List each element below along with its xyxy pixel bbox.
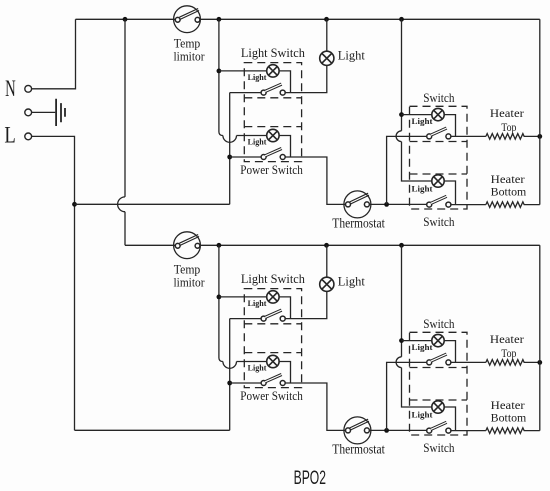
- switch S8 blade: [431, 422, 447, 429]
- wire lamp right to row 2: [279, 297, 290, 319]
- wire ground: [32, 111, 56, 113]
- wire N drop to bottom section with hop over L-feed: [124, 19, 126, 197]
- temp limitor U2 blade: [180, 236, 199, 245]
- svg-text:Light: Light: [338, 273, 365, 288]
- svg-text:Heater: Heater: [491, 174, 525, 186]
- temp limitor U1 body: [174, 6, 201, 33]
- wire switch out to heater bottom 2: [451, 430, 486, 432]
- switch S4 blade: [431, 196, 447, 203]
- wire light switch output to oven lamp: [285, 65, 327, 92]
- junction dot thermostat 2 out: [384, 428, 389, 433]
- junction dot B2 power row: [227, 381, 232, 386]
- resistor heater bottom: [486, 202, 540, 208]
- svg-text:Light Switch: Light Switch: [241, 45, 305, 60]
- lamp oven light top: [326, 19, 328, 51]
- svg-text:Bottom: Bottom: [491, 187, 527, 199]
- switch S2 terminal right: [280, 155, 285, 160]
- junction dot heater top right rail: [537, 134, 542, 139]
- junction dot L-feed top: [72, 202, 77, 207]
- wire lamp right to row: [279, 71, 290, 93]
- switch S6 terminal left: [261, 381, 266, 386]
- svg-text:Power Switch: Power Switch: [240, 388, 303, 403]
- wire A2 branch to light-switch lamp: [219, 296, 267, 298]
- svg-text:Switch: Switch: [423, 90, 455, 105]
- wire A2 to power lamp: [237, 361, 267, 363]
- svg-text:Power Switch: Power Switch: [240, 162, 303, 177]
- svg-text:Light: Light: [412, 116, 433, 126]
- temp limitor blade: [180, 10, 199, 19]
- light/power switch dashed enclosure: [244, 63, 301, 162]
- thermostat 2 terminal left: [346, 428, 351, 433]
- lamp heater-bottom 2 indicator: [432, 401, 444, 413]
- bottom rail left segment: [125, 244, 175, 246]
- dashed divider under light switch 2: [244, 323, 301, 325]
- wire riser 2 to heater-top switch row: [387, 362, 427, 430]
- svg-text:BPO2: BPO2: [294, 468, 326, 489]
- svg-text:Light: Light: [338, 47, 365, 62]
- wire lamp right to row s3b: [444, 341, 455, 363]
- wire to heater-top switch lamp: [402, 114, 432, 116]
- lamp light-switch indicator: [267, 65, 279, 77]
- junction dot rail2 x219: [217, 243, 222, 248]
- hop arc on A2 wire: [223, 362, 237, 369]
- junction dot x401 lamp1: [399, 112, 404, 117]
- lamp power-switch indicator: [267, 129, 279, 141]
- lamp heater-top 2 indicator: [432, 334, 444, 346]
- temp limitor terminal right: [195, 17, 200, 22]
- ground symbol: [56, 99, 65, 126]
- switch S5 terminal left: [261, 316, 266, 321]
- svg-text:Light: Light: [248, 72, 267, 82]
- junction dot rail2 x401: [399, 243, 404, 248]
- switch S4 terminal right: [446, 202, 451, 207]
- right rail: [539, 19, 541, 204]
- switch S8 terminal left: [427, 428, 432, 433]
- dashed divider under light switch: [244, 97, 301, 99]
- wire lamp right to row: [444, 115, 455, 137]
- svg-text:Switch: Switch: [423, 214, 455, 229]
- switch S4 terminal left: [427, 202, 432, 207]
- thermostat terminal right: [364, 202, 369, 207]
- switch S1 terminal right: [280, 90, 285, 95]
- svg-text:Light: Light: [248, 136, 267, 146]
- wire thermostat out: [369, 203, 427, 205]
- switch S3 terminal left: [427, 134, 432, 139]
- dashed divider above heater-bottom switch 2: [410, 399, 468, 401]
- dashed divider under heater-top switch 2: [410, 367, 468, 369]
- svg-text:Thermostat: Thermostat: [332, 442, 385, 457]
- wire x401 lamp feeds 2 with hop: [401, 245, 403, 356]
- wire lamp right to row s4b: [444, 407, 455, 431]
- junction dot rail x326: [324, 17, 329, 22]
- junction dot A2 light row: [217, 295, 222, 300]
- wire B2 branch power switch row: [230, 382, 262, 384]
- wire L down left rail to bottom feed: [32, 136, 75, 430]
- wire switch out to heater bottom: [451, 204, 486, 206]
- dashed divider above power switch 2: [244, 352, 301, 354]
- wire x401 lower to heater-bottom lamp: [402, 142, 432, 181]
- right rail 2: [539, 245, 541, 430]
- top rail right segment: [200, 18, 540, 20]
- wire B2 vertical: [229, 319, 231, 431]
- svg-text:Light: Light: [412, 342, 433, 352]
- temp limitor U2 terminal left: [175, 243, 180, 248]
- svg-text:limitor: limitor: [174, 49, 206, 64]
- junction dot rail x125: [123, 17, 128, 22]
- wire riser to heater-top switch row: [387, 136, 427, 204]
- switch S2 blade: [265, 149, 282, 156]
- wire B into light switch row: [230, 92, 262, 94]
- hop arc on A wire: [223, 136, 237, 143]
- svg-text:N: N: [5, 76, 16, 101]
- thermostat 2 terminal right: [364, 428, 369, 433]
- switch S6 blade: [265, 375, 282, 382]
- thermostat 2 blade: [350, 420, 369, 429]
- switch S3 blade: [431, 128, 447, 135]
- dashed divider above power switch: [244, 126, 301, 128]
- svg-text:L: L: [4, 122, 15, 147]
- thermostat body: [344, 191, 371, 218]
- node L terminal: [25, 133, 32, 140]
- thermostat terminal left: [346, 202, 351, 207]
- wire lamp right to row: [444, 181, 455, 205]
- svg-text:Heater: Heater: [491, 400, 525, 412]
- junction dot thermostat out: [384, 202, 389, 207]
- wire B L-feed horizontal: [75, 203, 230, 205]
- temp limitor U2 terminal right: [195, 243, 200, 248]
- wire B branch power switch row: [230, 156, 262, 158]
- svg-text:Switch: Switch: [423, 440, 455, 455]
- temp limitor U2 body: [174, 232, 201, 259]
- junction dot rail x401: [399, 17, 404, 22]
- thermostat blade: [350, 194, 369, 203]
- svg-text:Switch: Switch: [423, 316, 455, 331]
- node N terminal: [25, 85, 32, 92]
- junction dot rail x219: [217, 17, 222, 22]
- wire light switch 2 output to oven lamp 2: [285, 291, 327, 318]
- resistor heater top 2: [486, 360, 540, 366]
- svg-text:Light: Light: [412, 409, 433, 419]
- ground terminal: [25, 109, 32, 116]
- hop arc on x401: [396, 131, 401, 142]
- svg-text:Top: Top: [501, 122, 516, 134]
- switch S7 terminal left: [427, 360, 432, 365]
- svg-text:Light: Light: [412, 183, 433, 193]
- wire thermostat 2 out: [369, 429, 427, 431]
- wire switch out to heater top: [451, 135, 486, 137]
- svg-text:Top: Top: [501, 348, 516, 360]
- lamp light-switch 2 indicator: [267, 291, 279, 303]
- wire switch out to heater top 2: [451, 361, 486, 363]
- svg-text:Light: Light: [248, 298, 267, 308]
- wire power switch output to thermostat: [285, 157, 346, 204]
- svg-text:Thermostat: Thermostat: [332, 216, 385, 231]
- wire B2 L-feed horizontal: [75, 429, 230, 431]
- lamp power-switch 2 indicator: [267, 355, 279, 367]
- dashed divider above heater-bottom switch: [410, 173, 468, 175]
- svg-text:limitor: limitor: [174, 275, 206, 290]
- junction dot A light row: [217, 69, 222, 74]
- wire lamp right to row: [279, 136, 290, 158]
- wire N to top rail: [32, 19, 76, 89]
- svg-text:Light: Light: [248, 362, 267, 372]
- bottom rail right segment: [200, 244, 540, 246]
- switch S6 terminal right: [280, 381, 285, 386]
- lamp heater-top indicator: [432, 108, 444, 120]
- switch S3 terminal right: [446, 134, 451, 139]
- light/power switch dashed enclosure 2: [244, 289, 301, 388]
- wire B2 into light switch row: [230, 318, 262, 320]
- wire to heater-top switch lamp 2: [402, 340, 432, 342]
- top rail left segment: [76, 18, 176, 20]
- svg-text:Heater: Heater: [490, 108, 524, 120]
- heater switches dashed enclosure: [410, 106, 468, 209]
- thermostat 2 body: [344, 417, 371, 444]
- wire lamp right to row power 2: [279, 362, 290, 384]
- wire A to power lamp: [237, 135, 267, 137]
- wire power switch 2 output to thermostat 2: [285, 383, 346, 430]
- switch S5 blade: [265, 310, 282, 317]
- lamp heater-bottom indicator: [432, 175, 444, 187]
- switch S5 terminal right: [280, 316, 285, 321]
- svg-text:Heater: Heater: [490, 334, 524, 346]
- switch S7 blade: [431, 354, 447, 361]
- resistor heater bottom 2: [486, 428, 540, 434]
- resistor heater top: [486, 134, 540, 140]
- switch S2 terminal left: [261, 155, 266, 160]
- switch S7 terminal right: [446, 360, 451, 365]
- switch S1 terminal left: [261, 90, 266, 95]
- switch S8 terminal right: [446, 428, 451, 433]
- wire x125 lower to bottom rail: [124, 212, 126, 246]
- lamp oven light 2: [326, 245, 328, 277]
- hop arc on x401 section 2: [396, 357, 401, 368]
- hop arc on x125: [118, 197, 125, 212]
- junction dot heater top 2 right rail: [537, 360, 542, 365]
- dashed divider under heater-top switch: [410, 141, 468, 143]
- temp limitor terminal left: [175, 17, 180, 22]
- wire x401 lower 2 to heater-bottom lamp: [402, 368, 432, 407]
- wire B vertical: [229, 93, 231, 205]
- junction dot rail2 x326: [324, 243, 329, 248]
- wire A lamp feed x219 with corner and hop over B: [219, 19, 223, 135]
- junction dot x401 lamp feeds 2: [399, 338, 404, 343]
- switch S1 blade: [265, 84, 282, 91]
- junction dot B power row: [227, 155, 232, 160]
- heater switches dashed enclosure 2: [410, 332, 468, 435]
- wire A branch to light-switch lamp: [219, 70, 267, 72]
- svg-text:Bottom: Bottom: [491, 413, 527, 425]
- wire x401 lamp feeds with hop over switch row: [401, 19, 403, 131]
- svg-text:Light Switch: Light Switch: [241, 271, 305, 286]
- wire A2 lamp feed with corner and hop: [219, 245, 223, 361]
